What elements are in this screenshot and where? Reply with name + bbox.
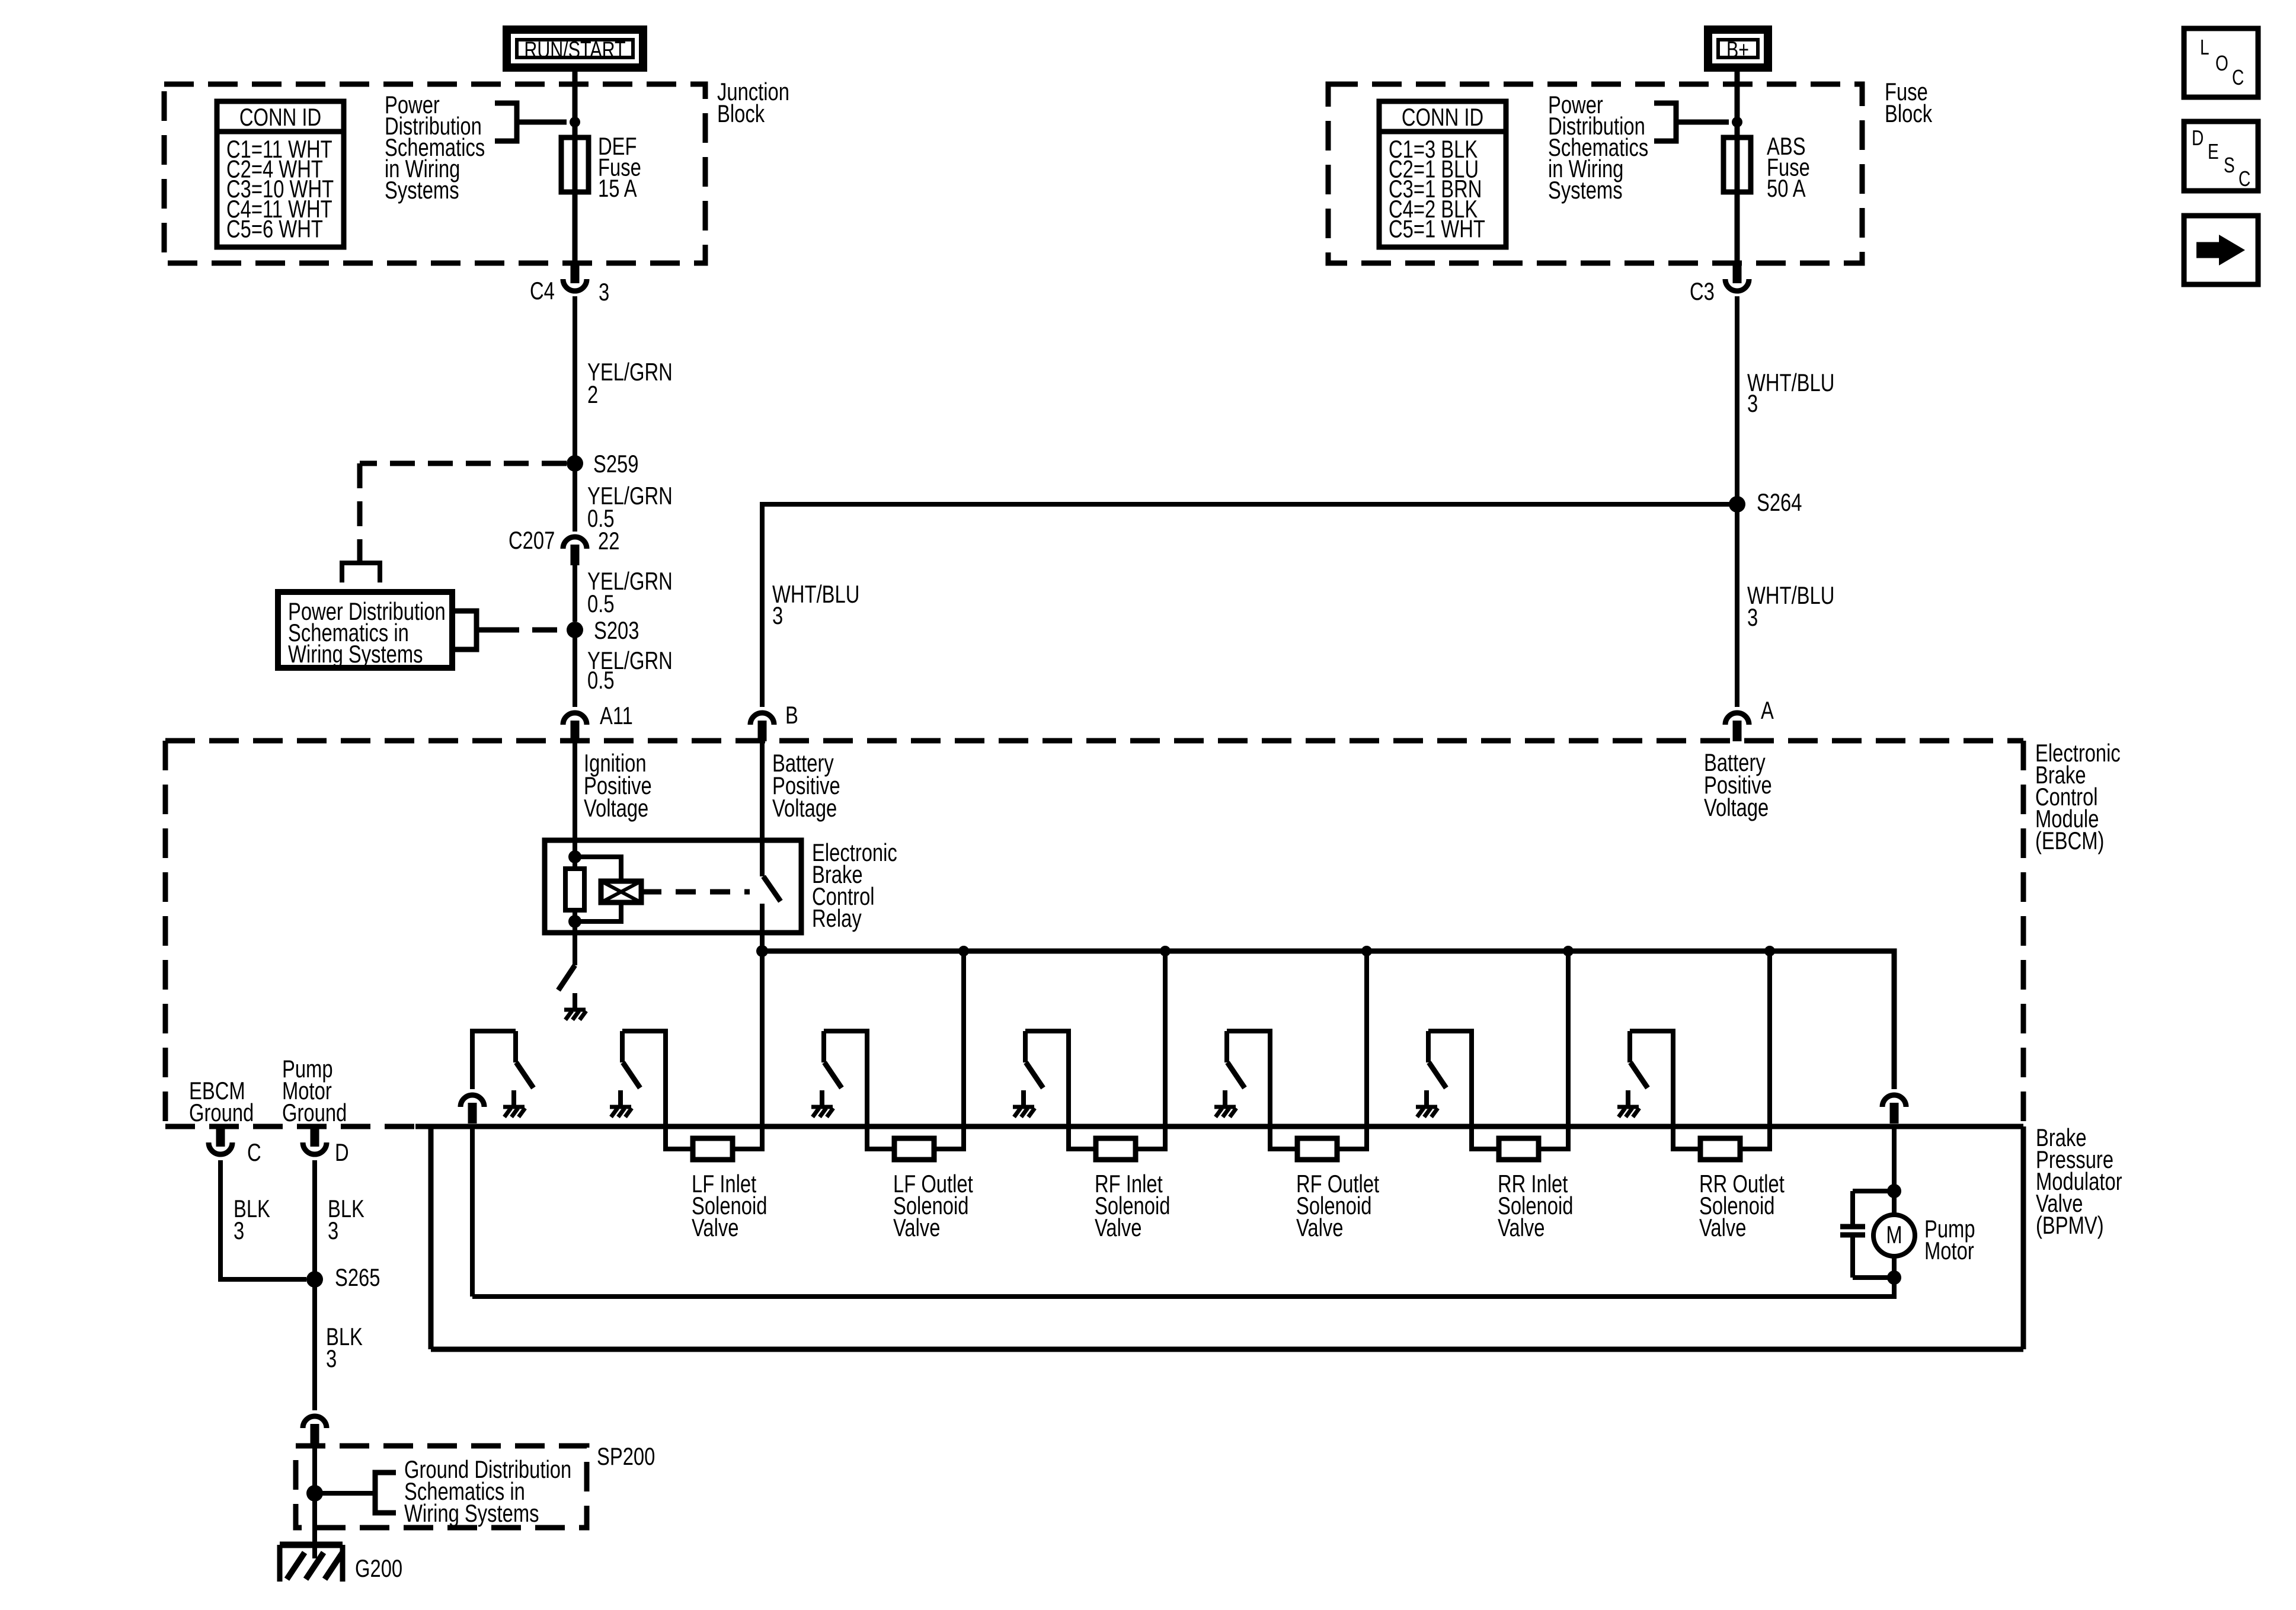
svg-text:M: M xyxy=(1886,1221,1902,1249)
wire: through SP200 to G200 xyxy=(312,1446,317,1558)
dashed reference branch from S259 xyxy=(360,461,567,466)
BPMV motor feed pin xyxy=(1882,1095,1906,1107)
power node B+ xyxy=(1708,30,1768,68)
pump motor M xyxy=(1873,1215,1915,1256)
svg-text:O: O xyxy=(2215,52,2228,75)
wire: pin to motor xyxy=(1892,1125,1897,1215)
svg-text:A: A xyxy=(1761,696,1774,724)
svg-text:Ground: Ground xyxy=(189,1099,254,1126)
node: RR Outlet feed junction xyxy=(1764,946,1775,956)
wire: C to S265, BLK 3 xyxy=(220,1160,306,1279)
svg-text:0.5: 0.5 xyxy=(587,666,615,694)
node: RF Outlet feed junction xyxy=(1361,946,1372,956)
svg-text:Valve: Valve xyxy=(1699,1214,1747,1241)
pump motor label xyxy=(1924,1215,1975,1265)
svg-text:WHT/BLU: WHT/BLU xyxy=(1747,369,1834,396)
node: RR Inlet feed junction xyxy=(1563,946,1574,956)
connector C207 pin 22 xyxy=(509,526,619,565)
junction block label xyxy=(717,78,789,127)
svg-text:Valve: Valve xyxy=(1498,1214,1545,1241)
solenoid coil: RR Inlet Solenoid Valve xyxy=(1498,1138,1573,1241)
svg-text:L: L xyxy=(2200,36,2209,59)
connector into SP200 splice pack xyxy=(303,1416,327,1428)
svg-text:(BPMV): (BPMV) xyxy=(2036,1211,2104,1239)
splice S265 xyxy=(306,1271,323,1288)
suppression capacitor xyxy=(1840,1191,1894,1278)
wire: B+ to C3 through ABS fuse xyxy=(1735,68,1740,263)
wire: resistor bottom to box bottom xyxy=(573,910,577,933)
wire: LF Inlet feed xyxy=(733,951,762,1149)
node: LF Inlet feed junction xyxy=(757,946,768,956)
wire: C3 to S264 to A, WHT/BLU 3 xyxy=(1735,296,1739,707)
svg-text:Relay: Relay xyxy=(812,904,862,932)
node: LF Outlet feed junction xyxy=(958,946,969,956)
CONN ID table (fuse block) xyxy=(1379,101,1506,247)
wire: RUN/START to C4 through DEF fuse xyxy=(573,68,578,263)
wire: RF Outlet feed xyxy=(1337,951,1367,1149)
relay switch contact xyxy=(763,876,781,901)
switch: cell 1 driver to ground xyxy=(503,1031,533,1117)
svg-text:Voltage: Voltage xyxy=(584,794,648,822)
svg-text:Voltage: Voltage xyxy=(1704,793,1769,821)
node: SP200 internal junction xyxy=(306,1485,323,1502)
svg-text:Systems: Systems xyxy=(385,176,459,204)
connector A11 (EBCM) xyxy=(563,702,633,741)
switch: RF Inlet driver xyxy=(1013,1031,1096,1149)
connector C3 (fuse block) xyxy=(1690,263,1749,305)
node: capacitor top junction xyxy=(1887,1184,1901,1198)
svg-text:Wiring Systems: Wiring Systems xyxy=(404,1499,539,1527)
wire: motor return xyxy=(472,1278,1894,1297)
wire: RF Inlet feed xyxy=(1136,951,1165,1149)
bracket from reference box, dashed to S203 xyxy=(454,611,494,649)
wire: RR Inlet feed xyxy=(1539,951,1568,1149)
wire label YEL/GRN 0.5 (S259 to C207) xyxy=(587,482,673,532)
svg-text:Wiring Systems: Wiring Systems xyxy=(288,640,423,668)
pin label: Battery Positive Voltage (A) xyxy=(1704,748,1772,821)
svg-text:S203: S203 xyxy=(594,616,639,644)
svg-text:3: 3 xyxy=(772,601,783,629)
reference text: power distribution schematics (fuse block) xyxy=(1548,91,1648,204)
wire: S264 branch to connector B xyxy=(762,504,1737,707)
BPMV return pin (cell 1) xyxy=(461,1031,516,1124)
svg-text:Valve: Valve xyxy=(692,1214,739,1241)
switch: LF Inlet driver xyxy=(610,1031,693,1149)
dashed actuation link xyxy=(641,889,750,895)
wire: B into relay switch xyxy=(760,742,765,876)
svg-text:C5=6 WHT: C5=6 WHT xyxy=(226,215,323,242)
wire: A11 into relay xyxy=(573,742,577,869)
solenoid coil: RF Inlet Solenoid Valve xyxy=(1095,1138,1170,1241)
bracket to ground distribution reference xyxy=(315,1491,375,1496)
svg-text:3: 3 xyxy=(599,278,609,306)
svg-text:C3: C3 xyxy=(1690,277,1715,305)
svg-text:Block: Block xyxy=(717,100,765,127)
svg-text:C: C xyxy=(2239,167,2250,191)
svg-text:B+: B+ xyxy=(1726,37,1749,62)
wire: C4 to S259, YEL/GRN 2 xyxy=(573,296,577,622)
fuse block dashed box xyxy=(1328,84,1862,263)
connector D (pump motor ground) xyxy=(303,1126,349,1166)
wire: D to S265, BLK 3 xyxy=(312,1160,317,1410)
solenoid coil: RF Outlet Solenoid Valve xyxy=(1296,1138,1380,1241)
connector C4 pin 3 (junction block) xyxy=(530,263,609,306)
svg-text:Block: Block xyxy=(1885,100,1932,127)
wire label BLK 3 (S265 to SP200) xyxy=(326,1323,363,1372)
pin label: Battery Positive Voltage (B) xyxy=(772,749,840,822)
wire: LF Outlet feed xyxy=(934,951,964,1149)
wire: S203 to A11 xyxy=(573,630,577,707)
relay coil (solenoid) xyxy=(601,881,641,902)
wire: RR Outlet feed xyxy=(1740,951,1770,1149)
node: RF Inlet feed junction xyxy=(1160,946,1171,956)
svg-text:S264: S264 xyxy=(1757,488,1802,516)
svg-text:CONN ID: CONN ID xyxy=(1402,103,1483,131)
reference text: Ground Distribution Schematics in Wiring Systems xyxy=(404,1455,571,1527)
wire label YEL/GRN 0.5 (C207 to S203) xyxy=(587,567,673,617)
reference text: power distribution schematics (junction block) xyxy=(385,91,485,204)
svg-text:C: C xyxy=(247,1138,261,1166)
svg-text:D: D xyxy=(2192,126,2204,150)
svg-text:3: 3 xyxy=(326,1345,337,1372)
svg-text:C5=1 WHT: C5=1 WHT xyxy=(1389,215,1485,242)
splice S259 xyxy=(567,455,583,472)
svg-text:3: 3 xyxy=(1747,389,1758,417)
CONN ID table (junction block) xyxy=(217,101,344,247)
connector C (EBCM ground) xyxy=(209,1126,261,1166)
svg-text:3: 3 xyxy=(328,1217,338,1244)
EBCM dashed box xyxy=(165,738,2023,744)
svg-text:22: 22 xyxy=(598,527,619,555)
solenoid coil: LF Outlet Solenoid Valve xyxy=(893,1138,973,1241)
wire label WHT/BLU 3 (A branch) xyxy=(1747,581,1834,631)
relay coil branch node xyxy=(568,850,581,863)
BPMV label xyxy=(2036,1124,2122,1239)
svg-text:D: D xyxy=(335,1138,349,1166)
svg-text:RUN/START: RUN/START xyxy=(524,37,625,62)
svg-text:A11: A11 xyxy=(600,702,633,729)
svg-text:YEL/GRN: YEL/GRN xyxy=(587,358,673,386)
fuse block label xyxy=(1885,78,1932,127)
svg-text:Valve: Valve xyxy=(1095,1214,1142,1241)
switch: relay coil driver to ground xyxy=(558,933,586,1020)
wire: cell 1 pin return xyxy=(470,1125,475,1297)
svg-text:G200: G200 xyxy=(355,1554,402,1582)
ground G200 xyxy=(280,1545,402,1582)
pin label: EBCM Ground xyxy=(189,1077,254,1126)
svg-text:3: 3 xyxy=(1747,603,1758,631)
connector B (EBCM) xyxy=(750,701,798,741)
svg-text:2: 2 xyxy=(587,380,598,408)
svg-text:C4: C4 xyxy=(530,277,555,305)
relay lower branch node xyxy=(568,915,581,928)
bracket from reference text to wire xyxy=(495,103,567,141)
BPMV boundary (solid) xyxy=(415,1124,2023,1129)
svg-text:Ground: Ground xyxy=(282,1099,347,1126)
svg-text:S265: S265 xyxy=(335,1263,380,1291)
DESC legend box xyxy=(2184,121,2258,191)
relay resistor xyxy=(565,869,584,910)
splice S264 xyxy=(1729,496,1745,513)
switch: LF Outlet driver xyxy=(811,1031,894,1149)
solenoid coil: RR Outlet Solenoid Valve xyxy=(1699,1138,1785,1241)
svg-text:C: C xyxy=(2232,66,2244,89)
fuse DEF 15 A xyxy=(561,132,641,202)
wire: coil branch xyxy=(575,857,621,921)
switch: RF Outlet driver xyxy=(1214,1031,1297,1149)
wire: solenoid feed bus xyxy=(762,951,1894,1089)
svg-text:3: 3 xyxy=(234,1217,244,1244)
reference box: Power Distribution Schematics in Wiring Systems xyxy=(278,592,452,668)
svg-text:Valve: Valve xyxy=(1296,1214,1344,1241)
pin label: Pump Motor Ground xyxy=(282,1055,347,1126)
svg-text:50 A: 50 A xyxy=(1767,174,1806,202)
pin label: Ignition Positive Voltage xyxy=(584,749,652,822)
svg-text:S: S xyxy=(2224,153,2235,177)
wire: motor bottom xyxy=(1892,1256,1897,1278)
splice S203 xyxy=(567,622,583,638)
svg-text:Voltage: Voltage xyxy=(772,794,837,822)
svg-text:15 A: 15 A xyxy=(598,174,637,202)
svg-text:WHT/BLU: WHT/BLU xyxy=(772,580,859,608)
SP200 dashed box xyxy=(296,1446,587,1528)
switch: RR Inlet driver xyxy=(1416,1031,1499,1149)
svg-text:0.5: 0.5 xyxy=(587,590,615,617)
wire label YEL/GRN 0.5 (S203 to A11) xyxy=(587,646,673,694)
node: capacitor bottom junction xyxy=(1887,1270,1901,1285)
arrow legend box xyxy=(2184,216,2258,284)
solenoid coil: LF Inlet Solenoid Valve xyxy=(692,1138,767,1241)
svg-text:(EBCM): (EBCM) xyxy=(2035,827,2104,854)
connector A (EBCM) xyxy=(1725,696,1774,741)
wire label WHT/BLU 3 (B branch) xyxy=(772,580,859,629)
svg-text:CONN ID: CONN ID xyxy=(239,103,321,131)
junction block dashed box xyxy=(164,84,705,263)
svg-text:S259: S259 xyxy=(593,450,639,478)
svg-text:B: B xyxy=(785,701,798,729)
svg-text:C207: C207 xyxy=(509,526,555,554)
svg-text:SP200: SP200 xyxy=(597,1442,655,1470)
switch: RR Outlet driver xyxy=(1617,1031,1700,1149)
node: relay output to bus xyxy=(756,945,768,957)
svg-text:Valve: Valve xyxy=(893,1214,941,1241)
EBCM label xyxy=(2035,739,2121,854)
svg-text:Systems: Systems xyxy=(1548,176,1623,204)
node: DEF fuse feed junction xyxy=(570,117,580,127)
svg-text:Motor: Motor xyxy=(1924,1237,1974,1265)
relay box: Electronic Brake Control Relay xyxy=(545,840,801,933)
LOC legend box xyxy=(2184,28,2258,97)
power node RUN/START xyxy=(507,30,643,68)
svg-text:WHT/BLU: WHT/BLU xyxy=(1747,581,1834,609)
svg-text:E: E xyxy=(2208,140,2219,164)
bracket from reference text to wire xyxy=(1654,103,1729,141)
fuse ABS 50 A xyxy=(1723,132,1810,202)
node: ABS fuse feed junction xyxy=(1732,117,1742,127)
